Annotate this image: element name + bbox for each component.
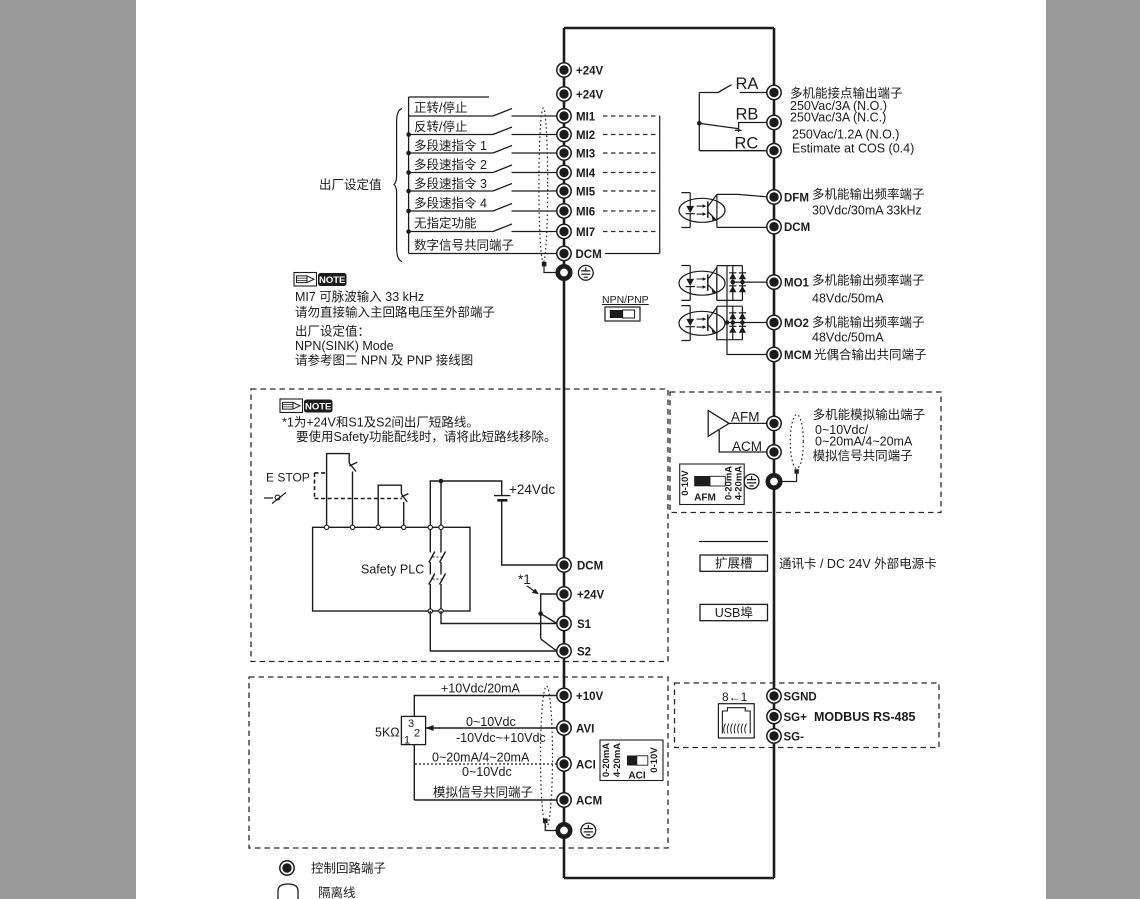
svg-text:1: 1 [404,735,410,747]
svg-text:ACI: ACI [576,760,596,772]
svg-text:5KΩ: 5KΩ [375,726,400,740]
svg-text:请参考图二 NPN 及 PNP 接线图: 请参考图二 NPN 及 PNP 接线图 [295,353,473,368]
svg-text:MCM: MCM [784,350,811,362]
svg-text:MI1: MI1 [576,112,596,124]
svg-text:多段速指令 3: 多段速指令 3 [414,176,487,191]
svg-text:请勿直接输入主回路电压至外部端子: 请勿直接输入主回路电压至外部端子 [295,305,495,320]
svg-text:无指定功能: 无指定功能 [414,216,477,231]
svg-text:通讯卡 / DC 24V 外部电源卡: 通讯卡 / DC 24V 外部电源卡 [779,556,937,571]
svg-text:250Vac/3A (N.C.): 250Vac/3A (N.C.) [790,111,886,125]
svg-text:DFM: DFM [784,193,809,205]
svg-text:隔离线: 隔离线 [318,885,356,899]
svg-text:2: 2 [414,728,420,740]
svg-text:+10Vdc/20mA: +10Vdc/20mA [441,682,521,696]
svg-text:0~20mA/4~20mA: 0~20mA/4~20mA [815,435,913,449]
svg-text:ACM: ACM [576,796,602,808]
svg-text:多段速指令 4: 多段速指令 4 [414,196,487,211]
svg-text:+24Vdc: +24Vdc [509,482,555,497]
svg-text:+10V: +10V [576,691,604,703]
svg-text:出厂设定值：: 出厂设定值： [295,324,370,339]
svg-text:0-20mA: 0-20mA [601,743,612,777]
svg-text:Estimate at COS (0.4): Estimate at COS (0.4) [792,142,914,156]
svg-text:E STOP: E STOP [266,471,310,485]
svg-text:数字信号共同端子: 数字信号共同端子 [414,238,514,253]
svg-text:多机能输出频率端子: 多机能输出频率端子 [812,315,925,330]
svg-text:AVI: AVI [576,724,594,736]
svg-text:*1: *1 [518,572,531,587]
svg-text:MI6: MI6 [576,207,595,219]
svg-text:0-10V: 0-10V [680,470,691,496]
svg-text:48Vdc/50mA: 48Vdc/50mA [812,292,884,306]
svg-text:+24V: +24V [576,66,604,78]
svg-text:控制回路端子: 控制回路端子 [311,861,386,876]
svg-text:0~10Vdc: 0~10Vdc [466,715,516,729]
svg-text:SG+: SG+ [784,712,808,724]
svg-text:RC: RC [735,135,759,153]
svg-text:ACI: ACI [628,771,645,782]
svg-text:+24V: +24V [577,590,605,602]
svg-text:AFM: AFM [694,493,716,504]
svg-text:多段速指令 2: 多段速指令 2 [414,157,487,172]
svg-text:MI2: MI2 [576,130,595,142]
svg-text:0-10V: 0-10V [649,747,660,773]
svg-text:MI4: MI4 [576,168,596,180]
svg-text:+24V: +24V [576,90,604,102]
svg-text:250Vac/1.2A (N.O.): 250Vac/1.2A (N.O.) [792,128,899,142]
svg-text:MO2: MO2 [784,318,809,330]
svg-text:多机能输出频率端子: 多机能输出频率端子 [812,187,925,202]
svg-text:模拟信号共同端子: 模拟信号共同端子 [433,786,533,800]
svg-text:RB: RB [736,106,759,124]
svg-text:模拟信号共同端子: 模拟信号共同端子 [813,449,913,463]
svg-text:多段速指令 1: 多段速指令 1 [414,138,487,153]
svg-text:要使用Safety功能配线时，请将此短路线移除。: 要使用Safety功能配线时，请将此短路线移除。 [296,429,556,444]
svg-text:多机能输出频率端子: 多机能输出频率端子 [812,273,925,288]
svg-text:MO1: MO1 [784,278,810,290]
svg-text:MI3: MI3 [576,149,595,161]
svg-text:光偶合输出共同端子: 光偶合输出共同端子 [814,347,927,362]
svg-text:4-20mA: 4-20mA [734,466,745,500]
svg-text:USB埠: USB埠 [715,606,753,620]
svg-text:扩展槽: 扩展槽 [715,557,753,571]
svg-text:SG-: SG- [784,732,805,744]
svg-text:反转/停止: 反转/停止 [414,119,467,134]
svg-text:正转/停止: 正转/停止 [414,100,467,115]
svg-text:*1为+24V和S1及S2间出厂短路线。: *1为+24V和S1及S2间出厂短路线。 [282,415,479,430]
svg-text:0~10Vdc: 0~10Vdc [462,765,512,779]
svg-text:-10Vdc~+10Vdc: -10Vdc~+10Vdc [456,731,546,745]
svg-text:48Vdc/50mA: 48Vdc/50mA [812,331,884,345]
svg-text:MI5: MI5 [576,187,596,199]
svg-text:SGND: SGND [784,692,817,704]
svg-text:DCM: DCM [576,249,602,261]
svg-text:S1: S1 [577,619,592,631]
svg-text:MI7: MI7 [576,227,595,239]
svg-text:S2: S2 [577,647,591,659]
svg-text:DCM: DCM [577,561,603,573]
svg-text:NPN/PNP: NPN/PNP [602,294,649,306]
svg-text:30Vdc/30mA 33kHz: 30Vdc/30mA 33kHz [812,204,922,218]
svg-text:ACM: ACM [732,439,762,454]
svg-text:多机能模拟输出端子: 多机能模拟输出端子 [813,407,926,422]
svg-text:NPN(SINK) Mode: NPN(SINK) Mode [295,339,394,353]
svg-text:AFM: AFM [731,410,760,425]
svg-text:出厂设定值: 出厂设定值 [319,177,382,192]
svg-text:MI7 可脉波输入 33 kHz: MI7 可脉波输入 33 kHz [295,289,424,304]
svg-text:8←1: 8←1 [722,690,748,704]
svg-text:MODBUS RS-485: MODBUS RS-485 [814,710,915,724]
svg-text:RA: RA [736,75,759,93]
svg-text:0~20mA/4~20mA: 0~20mA/4~20mA [432,751,530,765]
svg-text:Safety PLC: Safety PLC [361,563,424,577]
svg-text:DCM: DCM [784,222,810,234]
svg-text:4-20mA: 4-20mA [612,743,623,777]
